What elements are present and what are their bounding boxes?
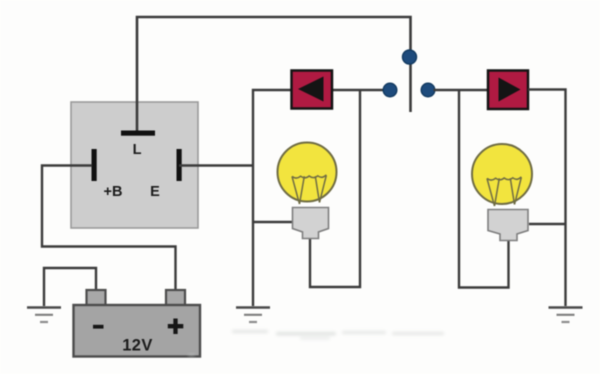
- switch common node (top dot): [403, 50, 417, 64]
- right lamp filament: [487, 177, 521, 206]
- terminal E bar: [177, 149, 182, 181]
- switch left contact dot: [383, 83, 397, 97]
- wire: switch right contact to right indicator: [434, 89, 489, 91]
- ground (battery): [27, 308, 61, 323]
- svg-text:E: E: [150, 184, 160, 200]
- battery minus sign: [93, 325, 104, 329]
- wire: battery minus to ground: [44, 268, 96, 306]
- relay box (flasher): [71, 102, 198, 228]
- wire: branch to left lamp base: [253, 221, 293, 223]
- svg-text:12V: 12V: [122, 337, 153, 355]
- battery plus sign: [168, 319, 184, 335]
- svg-text:L: L: [133, 142, 142, 158]
- battery terminal - post: [87, 290, 106, 306]
- switch right contact dot: [421, 83, 435, 97]
- left lamp filament: [292, 175, 326, 204]
- left lamp bulb: [278, 143, 337, 202]
- ground (right lamp): [549, 308, 583, 323]
- right lamp base: [488, 210, 528, 241]
- wire: right lamp lead loop (down-left-up): [459, 90, 509, 288]
- switch lever wire: [409, 56, 412, 112]
- wire: left lamp lead down, right, and up to switch wire: [310, 90, 360, 287]
- wire: right indicator to right ground drop: [528, 90, 566, 307]
- right indicator triangle: [499, 78, 521, 102]
- left indicator arrow box: [292, 71, 333, 109]
- right lamp bulb: [472, 144, 532, 204]
- wire: E terminal to left lamp branch: [179, 164, 254, 166]
- faint background smudges: [188, 330, 444, 357]
- wire: left vertical (indicator left / E / lamp base / ground): [253, 90, 291, 306]
- wire: left indicator to switch left contact: [332, 89, 387, 91]
- wire: top wire from relay L up and across to switch: [137, 17, 411, 132]
- wire: right lamp base to ground wire: [529, 223, 565, 225]
- right indicator arrow box: [488, 71, 528, 110]
- wire: +B to battery plus: [42, 166, 176, 292]
- battery body 12V: [74, 305, 201, 357]
- svg-text:+B: +B: [104, 184, 123, 200]
- left indicator triangle: [298, 77, 324, 102]
- left lamp base: [293, 208, 329, 239]
- ground (left lamp): [236, 308, 270, 323]
- terminal +B bar: [92, 149, 97, 181]
- battery terminal + post: [166, 290, 185, 306]
- terminal L bar: [121, 131, 155, 136]
